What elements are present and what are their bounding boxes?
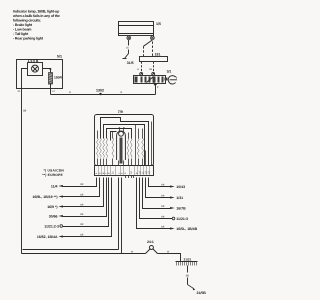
dead stub d xyxy=(133,176,135,179)
lamp 160B box xyxy=(28,63,43,76)
right leg switch blade xyxy=(144,40,153,46)
connector bar 181 xyxy=(140,57,168,62)
svg-text:31/5B: 31/5B xyxy=(197,291,207,295)
svg-text:31/5: 31/5 xyxy=(127,61,134,65)
svg-text:16/52, 1B/4A: 16/52, 1B/4A xyxy=(37,235,58,239)
capsule feed wire b xyxy=(123,129,125,132)
fan-out right row 2 wire xyxy=(146,178,171,198)
svg-text:SB: SB xyxy=(186,275,190,278)
arrow left row6 xyxy=(58,235,63,237)
resistor z2 xyxy=(100,138,102,158)
ground lead upper xyxy=(187,266,189,273)
resistor z8 xyxy=(137,138,139,158)
svg-text:Indicator lamp, 160B, light-up: Indicator lamp, 160B, light-up xyxy=(13,10,60,14)
resistor z6 xyxy=(127,138,129,158)
svg-text:GR: GR xyxy=(80,204,84,207)
junction dot b xyxy=(123,127,125,129)
svg-text:GR: GR xyxy=(80,194,84,197)
light switch 3/1 body xyxy=(134,76,166,84)
resistor z3 xyxy=(103,138,105,158)
upper bottom horizontal xyxy=(23,249,119,251)
dead stub b xyxy=(128,176,130,179)
wire lamp left to cluster pin xyxy=(22,69,28,89)
centre wire B from unit down xyxy=(121,178,123,254)
wire resistor bottom through box xyxy=(50,84,52,95)
svg-text:GR: GR xyxy=(161,226,165,229)
capsule feed wire a xyxy=(119,129,121,132)
arrow left row4 xyxy=(58,215,63,217)
svg-text:**) EUROPE: **) EUROPE xyxy=(42,173,63,177)
dead stub c xyxy=(131,176,133,179)
svg-text:16/7B: 16/7B xyxy=(176,206,186,210)
instrument cluster 5/1 box xyxy=(17,60,63,89)
svg-text:GR: GR xyxy=(80,183,84,186)
svg-text:- Brake light: - Brake light xyxy=(13,23,33,27)
corner junction blob xyxy=(49,68,51,70)
light switch 3/1 terminal circle-X right xyxy=(152,72,155,75)
switch contact bars xyxy=(135,77,164,83)
dead stub a xyxy=(125,176,127,179)
dashed wire below bar right xyxy=(153,62,155,73)
arrow right row1 xyxy=(170,185,175,187)
svg-text:- Rear parking light: - Rear parking light xyxy=(13,37,44,41)
arrow right row5 xyxy=(170,227,175,229)
ignition switch 1/5 box xyxy=(119,22,154,36)
left leg wire lower xyxy=(128,50,130,54)
fan-out left row 1 wire xyxy=(63,178,97,187)
svg-text:when a bulb fails in any of th: when a bulb fails in any of the xyxy=(12,14,60,18)
arrow right row3 xyxy=(170,207,175,209)
long left vertical wire from cluster to bottom rail xyxy=(21,89,23,254)
fan-out right row 3 wire xyxy=(143,178,171,209)
knob connector nub xyxy=(165,78,168,81)
ignition switch inner line xyxy=(119,25,154,27)
svg-text:24:1: 24:1 xyxy=(147,240,154,244)
switch knob lamp circle xyxy=(168,76,177,84)
resistor z7 xyxy=(130,138,132,158)
bus loop 4 xyxy=(111,132,117,141)
junction dot a xyxy=(119,127,121,129)
svg-text:31/31: 31/31 xyxy=(184,257,192,261)
svg-text:11/21:2-3: 11/21:2-3 xyxy=(44,224,59,228)
resistor z1 xyxy=(97,138,99,158)
relay capsule xyxy=(117,131,126,160)
svg-text:GR: GR xyxy=(80,213,84,216)
terminal strip xyxy=(95,166,154,176)
svg-text:R: R xyxy=(121,91,123,94)
switch blade to contact 31/5 xyxy=(125,54,129,59)
indicator lamp 160B (circle with X) xyxy=(32,65,39,72)
svg-text:3/1: 3/1 xyxy=(167,70,172,74)
fan-out left row 2 wire xyxy=(63,178,100,197)
svg-text:1302: 1302 xyxy=(96,89,104,93)
svg-text:R: R xyxy=(69,91,71,94)
svg-text:GR: GR xyxy=(161,216,165,219)
svg-text:*) USA/CDN: *) USA/CDN xyxy=(44,168,65,172)
resistor z9 xyxy=(142,138,144,158)
unit 7/9 outer box xyxy=(95,115,154,166)
svg-text:GR: GR xyxy=(161,184,165,187)
fan-out left row 6 wire xyxy=(63,178,112,237)
fan-out right row 1 wire xyxy=(149,178,171,187)
terminal numbers xyxy=(95,171,150,174)
terminal separators xyxy=(99,166,150,176)
contact tick xyxy=(123,58,127,60)
svg-text:- Low beam: - Low beam xyxy=(13,28,31,32)
connector circle row5 xyxy=(60,225,63,228)
horizontal wire y94 from cluster to light switch xyxy=(51,94,156,96)
arrow left row2 xyxy=(58,195,63,197)
svg-text:10/43: 10/43 xyxy=(176,185,185,189)
light switch 3/1 terminal circle-X left xyxy=(140,72,143,75)
svg-text:11/21:3: 11/21:3 xyxy=(176,217,188,221)
svg-text:30/66: 30/66 xyxy=(49,214,58,218)
svg-text:1/31: 1/31 xyxy=(176,196,183,200)
ground rail (comb) xyxy=(176,262,198,266)
arrow right row2 xyxy=(170,196,175,198)
centre wire A from unit down xyxy=(118,178,120,250)
arrow left row1 xyxy=(58,185,63,187)
dashed wire left of pair xyxy=(143,46,145,56)
unit internal drop wires xyxy=(98,122,152,166)
ground lead lower xyxy=(187,278,189,285)
fan-out left row 5 wire xyxy=(63,178,109,227)
wire from 24:1 to ground rail xyxy=(158,254,181,262)
ground arrow to 31/5B xyxy=(188,285,194,289)
title text block xyxy=(12,10,60,41)
junction node 1302 xyxy=(99,93,102,96)
resistor 150R body (hatched) xyxy=(49,73,53,85)
bus loop 1 with step xyxy=(101,118,149,166)
terminal circle-X left of 1/5 xyxy=(127,36,131,40)
svg-text:16/5L, 1B/4B: 16/5L, 1B/4B xyxy=(176,227,197,231)
connector circle r-row4 xyxy=(172,217,175,220)
svg-text:181: 181 xyxy=(155,52,161,56)
fan-out right row 5 wire xyxy=(137,178,171,229)
svg-text:150R: 150R xyxy=(54,75,63,79)
lower bottom horizontal to connector xyxy=(22,253,146,255)
switch actuator diagonal xyxy=(147,77,154,83)
actuator arrow xyxy=(153,82,157,86)
svg-text:GR: GR xyxy=(80,234,84,237)
resistor z4 xyxy=(106,138,108,158)
svg-text:GR: GR xyxy=(80,223,84,226)
dashed wire right of pair xyxy=(152,42,154,57)
bus loop 2 xyxy=(104,125,145,166)
svg-text:following circuits:: following circuits: xyxy=(13,19,41,23)
left leg wire upper xyxy=(128,40,130,46)
resistor z5 xyxy=(112,138,114,158)
svg-text:7/9: 7/9 xyxy=(118,110,123,114)
svg-text:11/4: 11/4 xyxy=(51,184,58,188)
svg-text:- Tail light: - Tail light xyxy=(13,32,29,36)
fan-out left row 4 wire xyxy=(63,178,107,217)
connector 24:1 (circle on legs) xyxy=(146,246,158,254)
dashed wire below bar left xyxy=(141,62,143,73)
svg-text:GR: GR xyxy=(161,195,165,198)
svg-text:GR: GR xyxy=(161,205,165,208)
terminal circle-X right of 1/5 xyxy=(151,36,155,40)
wire from switch down to y94 xyxy=(155,84,157,95)
arrow left row3 xyxy=(58,205,63,207)
svg-text:16/9L, 1B/19 **): 16/9L, 1B/19 **) xyxy=(32,195,57,199)
ignition switch lower inner line xyxy=(119,33,154,35)
relay coil circle xyxy=(119,131,124,136)
svg-text:SB: SB xyxy=(23,110,27,113)
svg-text:1/5: 1/5 xyxy=(156,22,161,26)
bus loop 3 xyxy=(107,129,132,139)
relay core bar xyxy=(120,138,123,164)
fan-out left row 3 wire xyxy=(63,178,104,207)
wire lamp right to resistor xyxy=(43,69,51,73)
fan-out right row 4 wire xyxy=(140,178,173,219)
svg-text:5/1: 5/1 xyxy=(57,55,62,59)
svg-text:16/9 *): 16/9 *) xyxy=(47,205,57,209)
